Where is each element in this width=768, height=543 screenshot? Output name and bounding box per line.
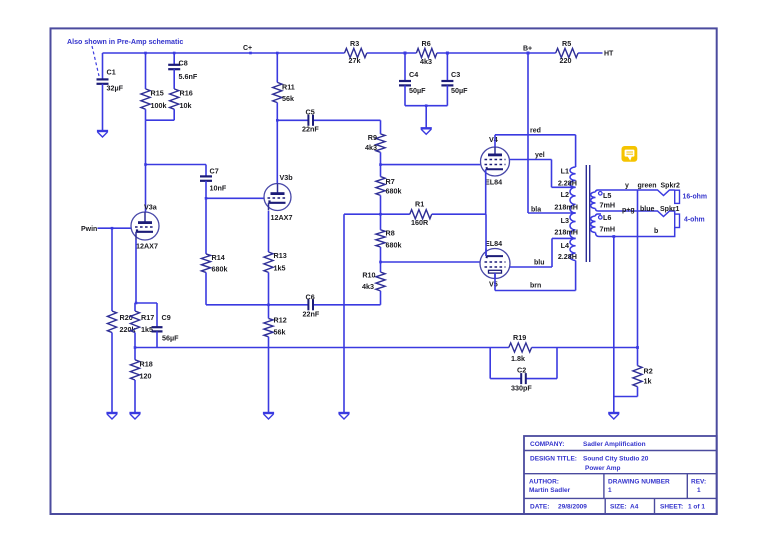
pentode V4: [481, 135, 510, 187]
wire C4-C3 join: [405, 104, 447, 128]
svg-text:680k: 680k: [212, 265, 228, 274]
ground under C4-C3: [421, 128, 432, 134]
svg-text:R11: R11: [282, 83, 295, 92]
wire V4 cathode: [485, 169, 487, 214]
svg-text:680k: 680k: [386, 187, 402, 196]
svg-text:L4: L4: [561, 241, 569, 250]
wire V4 grid: [379, 163, 480, 166]
wire V3b anode riser: [276, 119, 279, 184]
transformer core: [586, 165, 589, 262]
svg-text:120: 120: [140, 372, 152, 381]
svg-text:R19: R19: [513, 333, 526, 342]
svg-text:4k3: 4k3: [362, 282, 374, 291]
svg-text:R20: R20: [120, 313, 133, 322]
svg-text:50µF: 50µF: [451, 86, 468, 95]
svg-text:56µF: 56µF: [162, 334, 179, 343]
svg-text:V3b: V3b: [280, 173, 294, 182]
resistor R17: [130, 303, 154, 348]
resistor R2: [633, 366, 653, 397]
svg-text:R14: R14: [212, 253, 225, 262]
svg-text:218mH: 218mH: [554, 202, 578, 211]
svg-text:R10: R10: [362, 271, 375, 280]
resistor R9: [365, 120, 385, 164]
wire V5 screen blu: [510, 238, 576, 267]
svg-text:22nF: 22nF: [302, 125, 319, 134]
triode V3b: [264, 173, 293, 222]
svg-text:218mH: 218mH: [554, 227, 578, 236]
svg-text:COMPANY:: COMPANY:: [530, 441, 564, 448]
svg-text:4-ohm: 4-ohm: [684, 217, 705, 224]
resistor R14: [201, 198, 227, 304]
svg-text:C6: C6: [306, 293, 315, 302]
label 4-ohm: [684, 217, 705, 224]
svg-text:7mH: 7mH: [600, 201, 616, 210]
wire tail to ground: [343, 214, 345, 413]
svg-text:4k3: 4k3: [420, 57, 432, 66]
svg-text:2.28H: 2.28H: [558, 178, 577, 187]
border frame: [51, 28, 717, 514]
svg-text:C2: C2: [517, 366, 526, 375]
resistor R15: [141, 52, 167, 121]
svg-text:Spkr1: Spkr1: [660, 206, 680, 213]
svg-text:SIZE:: SIZE:: [610, 504, 627, 511]
svg-text:C+: C+: [243, 45, 252, 52]
ground output: [608, 413, 619, 419]
svg-text:R2: R2: [644, 367, 653, 376]
svg-text:V4: V4: [489, 135, 498, 144]
svg-text:27k: 27k: [349, 56, 361, 65]
wire V3b cathode: [268, 211, 270, 252]
svg-text:680k: 680k: [386, 241, 402, 250]
node HT: [604, 51, 614, 58]
svg-text:C8: C8: [179, 59, 188, 68]
svg-text:AUTHOR:: AUTHOR:: [529, 479, 559, 486]
svg-text:bla: bla: [531, 207, 541, 214]
svg-text:1: 1: [697, 487, 701, 494]
svg-text:R16: R16: [180, 89, 193, 98]
resistor R1: [344, 200, 486, 228]
svg-text:R18: R18: [140, 360, 153, 369]
capacitor C1: [97, 53, 124, 131]
svg-text:L2: L2: [561, 190, 569, 199]
svg-text:Also shown in Pre-Amp schemati: Also shown in Pre-Amp schematic: [67, 38, 183, 46]
svg-text:R8: R8: [386, 229, 395, 238]
ground under R12: [263, 413, 274, 419]
wire V5 cathode: [485, 214, 487, 256]
capacitor C9: [136, 303, 179, 348]
svg-text:yel: yel: [535, 152, 545, 159]
svg-text:4k3: 4k3: [365, 143, 377, 152]
svg-text:DESIGN TITLE:: DESIGN TITLE:: [530, 455, 577, 462]
svg-text:A4: A4: [630, 504, 639, 511]
svg-text:C7: C7: [210, 167, 219, 176]
svg-text:C3: C3: [451, 70, 460, 79]
comment icon: [622, 146, 638, 162]
title block: [524, 436, 717, 514]
resistor R18: [130, 346, 152, 413]
svg-text:R6: R6: [422, 39, 431, 48]
svg-text:p+g: p+g: [622, 207, 635, 214]
capacitor C7: [200, 165, 227, 199]
capacitor C3: [441, 52, 468, 106]
svg-text:L1: L1: [561, 167, 569, 176]
wire bla tap: [528, 207, 576, 214]
svg-text:56k: 56k: [282, 94, 294, 103]
wire C5 line: [277, 119, 380, 121]
svg-text:y: y: [625, 182, 629, 189]
svg-text:REV:: REV:: [691, 479, 706, 486]
svg-text:R5: R5: [562, 39, 571, 48]
svg-text:R12: R12: [274, 316, 287, 325]
svg-text:R7: R7: [386, 177, 395, 186]
svg-text:C9: C9: [162, 313, 171, 322]
svg-text:29/8/2009: 29/8/2009: [558, 504, 587, 511]
svg-text:R1: R1: [415, 200, 424, 209]
svg-text:1k: 1k: [644, 377, 652, 386]
label 16-ohm: [683, 193, 708, 200]
inductor L3: [554, 213, 578, 238]
speaker jack Spkr1: [675, 214, 680, 227]
node B+: [523, 46, 532, 55]
svg-text:10nF: 10nF: [210, 184, 227, 193]
svg-text:C4: C4: [409, 70, 418, 79]
svg-text:Martin Sadler: Martin Sadler: [529, 487, 571, 494]
inductor L1: [558, 167, 577, 188]
svg-text:Sadler Amplification: Sadler Amplification: [583, 441, 646, 448]
svg-text:HT: HT: [604, 51, 614, 58]
svg-text:DATE:: DATE:: [530, 504, 549, 511]
wire B+ riser: [527, 53, 529, 213]
svg-text:C5: C5: [306, 108, 315, 117]
ground under C1: [97, 131, 108, 137]
svg-text:V5: V5: [489, 280, 498, 289]
svg-text:red: red: [530, 128, 541, 135]
svg-text:C1: C1: [107, 68, 116, 77]
resistor R11: [273, 52, 295, 121]
pentode V5: [480, 239, 510, 289]
svg-text:V3a: V3a: [144, 203, 158, 212]
resistor R7: [376, 165, 402, 215]
wire V4 plate red: [495, 128, 576, 168]
svg-text:green: green: [638, 182, 657, 189]
svg-text:DRAWING NUMBER: DRAWING NUMBER: [608, 479, 670, 486]
ground under tail: [338, 413, 349, 419]
svg-text:2.28H: 2.28H: [558, 252, 577, 261]
svg-text:32µF: 32µF: [107, 84, 124, 93]
svg-text:10k: 10k: [180, 101, 192, 110]
triode V3a: [131, 203, 159, 251]
svg-text:Spkr2: Spkr2: [661, 182, 681, 189]
resistor R20: [107, 228, 135, 413]
capacitor C8: [168, 52, 198, 89]
node Pwin: [81, 226, 131, 233]
svg-text:L3: L3: [561, 216, 569, 225]
ground under R20: [106, 413, 117, 419]
wire C7 to V3b grid: [205, 197, 264, 200]
wire R2 to ground: [614, 396, 638, 398]
svg-text:160R: 160R: [411, 218, 429, 227]
wire y line: [601, 182, 680, 195]
svg-text:330pF: 330pF: [511, 384, 532, 393]
svg-text:5.6nF: 5.6nF: [179, 72, 198, 81]
svg-text:R3: R3: [350, 39, 359, 48]
resistor R16: [170, 89, 193, 121]
svg-text:1.8k: 1.8k: [511, 354, 525, 363]
resistor R10: [362, 262, 385, 305]
wire V5 grid: [379, 261, 480, 264]
note Also shown in Pre-Amp schematic: [67, 38, 183, 76]
speaker jack Spkr2: [675, 190, 680, 203]
wire y riser: [636, 190, 639, 366]
svg-text:Sound City Studio 20: Sound City Studio 20: [583, 455, 649, 462]
svg-text:1: 1: [608, 487, 612, 494]
svg-text:50µF: 50µF: [409, 86, 426, 95]
wire b line: [599, 228, 675, 237]
svg-text:1k5: 1k5: [274, 264, 286, 273]
resistor R19: [509, 333, 532, 363]
svg-text:220: 220: [560, 56, 572, 65]
wire V5 plate brn: [495, 261, 576, 291]
svg-text:L6: L6: [603, 213, 611, 222]
capacitor C5: [302, 108, 319, 134]
svg-text:blu: blu: [534, 260, 545, 267]
resistor R8: [376, 213, 402, 262]
wire R15-R16 join: [146, 119, 175, 121]
node C+: [243, 45, 252, 54]
wire feedback bus: [135, 347, 638, 349]
ground under R18: [129, 413, 140, 419]
svg-text:blue: blue: [640, 206, 654, 213]
svg-text:R15: R15: [151, 89, 164, 98]
svg-text:1k5: 1k5: [141, 325, 153, 334]
inductor L5: [591, 190, 615, 211]
svg-text:22nF: 22nF: [303, 310, 320, 319]
svg-text:Pwin: Pwin: [81, 226, 97, 233]
svg-text:12AX7: 12AX7: [271, 213, 293, 222]
resistor R6: [416, 39, 437, 66]
svg-text:R17: R17: [141, 313, 154, 322]
svg-text:B+: B+: [523, 46, 532, 53]
svg-text:100k: 100k: [151, 101, 167, 110]
svg-text:7mH: 7mH: [600, 225, 616, 234]
wire b riser: [612, 235, 615, 413]
inductor L2: [554, 187, 578, 213]
svg-text:SHEET:: SHEET:: [660, 504, 683, 511]
svg-text:1 of 1: 1 of 1: [688, 504, 705, 511]
wire C6 line: [206, 304, 381, 306]
inductor L6: [591, 213, 615, 237]
capacitor C2: [490, 348, 557, 393]
wire C+ rail: [103, 52, 603, 54]
wire anode V3a riser: [144, 120, 147, 212]
svg-text:56k: 56k: [274, 328, 286, 337]
resistor R3: [345, 39, 367, 65]
resistor R13: [264, 251, 287, 305]
svg-text:Power Amp: Power Amp: [585, 465, 621, 472]
capacitor C4: [399, 52, 426, 106]
svg-text:R9: R9: [368, 133, 377, 142]
wire V4 screen yel: [510, 152, 576, 187]
capacitor C6: [303, 293, 320, 319]
resistor R5: [556, 39, 578, 65]
svg-text:EL84: EL84: [485, 239, 502, 248]
svg-text:16-ohm: 16-ohm: [683, 193, 708, 200]
wire p+g line: [601, 206, 680, 217]
svg-text:EL84: EL84: [485, 178, 502, 187]
resistor R12: [264, 304, 287, 414]
svg-text:b: b: [654, 228, 658, 235]
svg-text:R13: R13: [274, 251, 287, 260]
wire V3a cathode: [135, 240, 138, 304]
inductor L4: [558, 238, 577, 261]
wire to C7: [146, 164, 207, 166]
svg-text:12AX7: 12AX7: [136, 242, 158, 251]
svg-text:L5: L5: [603, 191, 611, 200]
svg-text:brn: brn: [530, 283, 541, 290]
